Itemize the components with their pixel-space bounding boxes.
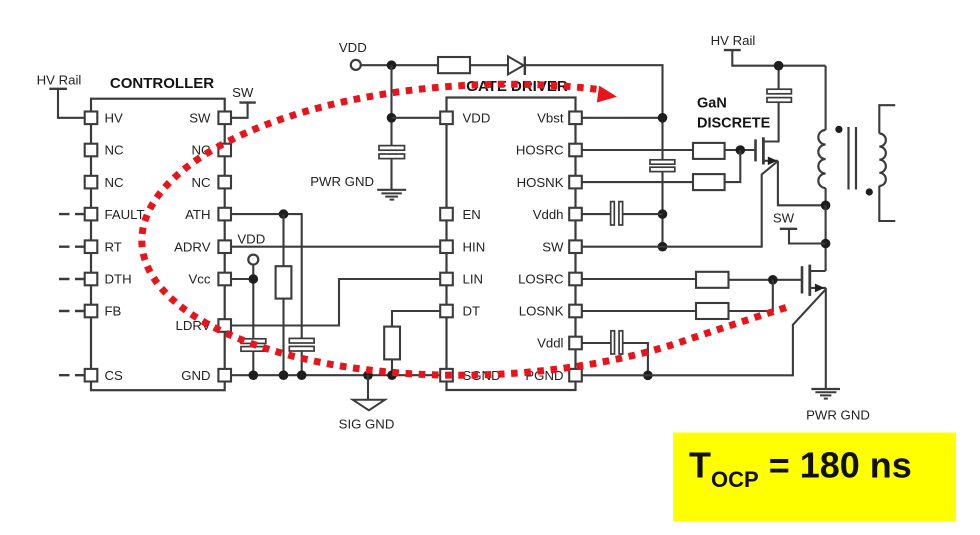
svg-text:RT: RT (105, 239, 122, 254)
svg-text:ATH: ATH (185, 207, 210, 222)
wire diode to bootstrap rail (526, 65, 663, 160)
gate driver pin SGND (440, 369, 453, 382)
controller pin LDRV (218, 319, 231, 332)
gate driver pin Vddl (569, 337, 582, 350)
junction ATH (279, 209, 289, 219)
Vddh wire (582, 213, 611, 215)
wire to gate driver VDD pin (392, 117, 441, 119)
PWR GND symbol (right) (811, 388, 840, 390)
junction rail R_ath (279, 370, 289, 380)
junction HS gate (736, 145, 746, 155)
svg-text:HIN: HIN (463, 239, 486, 254)
controller pin NC (218, 144, 231, 157)
red arrowhead (597, 86, 617, 103)
svg-text:FB: FB (105, 304, 122, 319)
svg-text:NC: NC (105, 175, 125, 190)
junction HV node (774, 61, 784, 71)
ATH net wire (231, 214, 302, 338)
junction LS gate (768, 275, 778, 285)
junction Vcc (249, 274, 259, 284)
transistor Q1 channel bar (762, 137, 765, 164)
svg-text:LOSNK: LOSNK (519, 304, 564, 319)
wire HV to transformer primary (825, 66, 827, 130)
svg-text:GaN: GaN (697, 96, 727, 112)
gate driver pin HIN (440, 240, 453, 253)
controller pin RT (85, 240, 98, 253)
svg-text:CS: CS (105, 368, 124, 383)
junction Vddh node (658, 209, 668, 219)
controller pin CS (85, 369, 98, 382)
gate driver pin SW (569, 240, 582, 253)
HV Rail bar symbol (49, 88, 67, 90)
wire R_dt to gnd rail (391, 359, 393, 375)
SW wire to high-side source (582, 161, 778, 247)
no-connect dash stub FAULT (59, 213, 85, 215)
svg-text:VDD: VDD (339, 40, 367, 55)
transistor Q2 gate bar (801, 266, 804, 293)
svg-text:NC: NC (105, 143, 125, 158)
wire C_vddh to junction (623, 213, 663, 215)
transformer T1 primary winding (818, 130, 825, 188)
wire VDD node down (390, 65, 392, 146)
Q1 drain lead (763, 102, 778, 141)
junction VDD node (387, 60, 397, 70)
capacitor C_bst (650, 160, 675, 164)
transistor Q1 gate bar (754, 139, 757, 161)
HV Rail bar symbol (right) (724, 49, 741, 51)
svg-text:LIN: LIN (463, 272, 484, 287)
junction SW node (658, 242, 668, 252)
Q2 source arrow (815, 284, 824, 293)
svg-text:GND: GND (181, 368, 210, 383)
wire Q2 source to PWR GND (825, 288, 827, 389)
controller pin Vcc (218, 273, 231, 286)
wire SW symbol to node (789, 229, 826, 244)
junction Vbst node (658, 113, 668, 123)
wire resistor to diode (470, 64, 508, 66)
secondary bottom lead (879, 186, 895, 221)
svg-text:HV Rail: HV Rail (711, 33, 756, 48)
junction rail C1 (249, 370, 259, 380)
SW net bar symbol (controller) (239, 101, 255, 103)
wire R_hosrc to gate (725, 149, 755, 151)
Vddl wire (582, 342, 611, 344)
resistor R_dt (384, 327, 400, 360)
transformer core lines (847, 127, 849, 190)
svg-text:NC: NC (191, 175, 211, 190)
gate driver pin HOSRC (569, 144, 582, 157)
capacitor C1 (241, 339, 266, 344)
secondary polarity dot (866, 188, 873, 195)
yellow callout box (673, 433, 956, 522)
svg-text:DISCRETE: DISCRETE (697, 116, 771, 132)
capacitor C_vdd (379, 146, 405, 151)
wire resistor to gnd rail (282, 299, 284, 376)
PGND wire to low-side source (582, 289, 826, 375)
svg-text:DTH: DTH (105, 272, 132, 287)
gate driver pin LOSNK (569, 305, 582, 318)
svg-text:SW: SW (542, 239, 564, 254)
svg-text:VDD: VDD (237, 232, 265, 247)
controller pin NC (218, 176, 231, 189)
Q2 drain lead (810, 270, 826, 272)
Q1 source lead (763, 160, 778, 162)
Q1 source arrow (768, 157, 777, 166)
signal ground rail (231, 374, 440, 376)
junction rail SIG GND (363, 370, 373, 380)
LOSRC wire (582, 278, 696, 280)
controller pin NC (85, 176, 98, 189)
wire C_vddl to PGND (623, 343, 648, 375)
LDRV to LIN wire (231, 279, 440, 326)
svg-text:VDD: VDD (463, 111, 491, 126)
wire SW node down to Q2 drain (825, 205, 827, 271)
junction rail R_dt (387, 370, 397, 380)
svg-text:HV Rail: HV Rail (37, 73, 82, 88)
HOSNK wire (582, 181, 693, 183)
capacitor C2 (289, 338, 314, 343)
wire Q1 source to SW junction (778, 161, 826, 206)
wire C2 to gnd rail (301, 351, 303, 375)
junction SW stub node (821, 239, 831, 249)
svg-text:ADRV: ADRV (174, 239, 211, 254)
svg-text:SGND: SGND (463, 368, 501, 383)
svg-text:Vcc: Vcc (189, 272, 211, 287)
gate driver pin HOSNK (569, 176, 582, 189)
gate driver U2 (447, 98, 576, 391)
PWR GND symbol (middle) (377, 189, 406, 191)
wire VDD circle down through C1 (252, 265, 254, 339)
wire C_vdd to PWR GND (390, 159, 392, 190)
ADRV to HIN wire (231, 246, 440, 248)
diode D1 (508, 56, 524, 74)
svg-text:Vddh: Vddh (533, 207, 564, 222)
wire R_losrc to LS gate (729, 279, 801, 281)
controller pin DTH (85, 273, 98, 286)
controller pin NC (85, 144, 98, 157)
svg-text:HOSNK: HOSNK (517, 175, 564, 190)
resistor R_hosrc (693, 143, 725, 159)
wire ATH to resistor (282, 214, 284, 266)
controller pin SW (218, 112, 231, 125)
Vbst wire (582, 117, 663, 119)
secondary top lead (879, 105, 895, 133)
svg-text:SW: SW (773, 210, 795, 225)
controller U1 (91, 99, 225, 391)
wire primary bottom (825, 188, 827, 205)
junction SW primary node (821, 201, 831, 211)
controller pin FB (85, 305, 98, 318)
svg-text:Vddl: Vddl (537, 336, 563, 351)
SIG GND symbol (367, 375, 369, 400)
resistor R1 (VDD feed) (438, 57, 470, 73)
wire R_hosnk to gate node (725, 150, 741, 182)
capacitor C_vddh (611, 202, 615, 225)
gate driver pin DT (440, 305, 453, 318)
wire SW pin to SW symbol (231, 103, 248, 118)
no-connect dash stub DTH (59, 278, 85, 280)
SW bar symbol (right) (780, 228, 797, 230)
DT net wire (392, 311, 440, 327)
resistor R_hosnk (693, 174, 725, 190)
controller pin HV (85, 112, 98, 125)
svg-text:PWR GND: PWR GND (310, 174, 374, 189)
svg-text:SW: SW (189, 111, 211, 126)
wire HV junction to C_hv (778, 66, 780, 90)
resistor R_losrc (696, 272, 729, 288)
primary polarity dot (835, 126, 842, 133)
VDD terminal circle (middle) (248, 255, 258, 265)
transformer T1 secondary winding (879, 134, 886, 186)
svg-text:HV: HV (105, 111, 124, 126)
wire HV Rail to HV pin (58, 89, 85, 118)
svg-text:FAULT: FAULT (105, 207, 145, 222)
wire R_losnk to gate node (729, 280, 773, 311)
svg-text:PWR GND: PWR GND (806, 408, 870, 423)
junction VDD pin node (387, 113, 397, 123)
svg-text:DT: DT (463, 304, 481, 319)
controller pin ADRV (218, 240, 231, 253)
gate driver pin EN (440, 208, 453, 221)
svg-text:Vbst: Vbst (537, 111, 564, 126)
junction rail C2 (297, 370, 307, 380)
no-connect dash stub RT (59, 245, 85, 247)
wire HV Rail to primary (732, 50, 825, 66)
wire VDD terminal to resistor (361, 64, 438, 66)
svg-text:HOSRC: HOSRC (516, 143, 564, 158)
gate driver pin Vddh (569, 208, 582, 221)
Q2 source lead (810, 287, 826, 289)
svg-text:SW: SW (232, 85, 254, 100)
controller pin FAULT (85, 208, 98, 221)
gate driver pin VDD (440, 112, 453, 125)
no-connect dash stub FB (59, 310, 85, 312)
red dotted ellipse annotation (142, 84, 786, 375)
VDD terminal circle (top) (351, 60, 361, 70)
svg-text:EN: EN (463, 207, 481, 222)
transistor Q2 channel bar (808, 265, 811, 296)
svg-text:CONTROLLER: CONTROLLER (110, 75, 214, 92)
junction PGND node (643, 371, 653, 381)
gate driver pin Vbst (569, 112, 582, 125)
wire Vcc pin to junction (231, 278, 253, 280)
HOSRC wire (582, 149, 693, 151)
resistor R_losnk (696, 303, 729, 319)
capacitor C_hv (767, 89, 791, 94)
svg-text:SIG GND: SIG GND (339, 417, 395, 432)
controller pin GND (218, 369, 231, 382)
gate driver pin LIN (440, 273, 453, 286)
no-connect dash stub CS (59, 374, 85, 376)
capacitor C_vddl (611, 331, 615, 354)
controller pin ATH (218, 208, 231, 221)
gate driver pin LOSRC (569, 273, 582, 286)
resistor R_ath (276, 266, 292, 298)
wire C1 to gnd rail (252, 351, 254, 375)
LOSNK wire (582, 310, 696, 312)
wire C_bst to SW node (661, 172, 663, 247)
svg-text:LOSRC: LOSRC (518, 272, 564, 287)
gate driver pin PGND (569, 369, 582, 382)
